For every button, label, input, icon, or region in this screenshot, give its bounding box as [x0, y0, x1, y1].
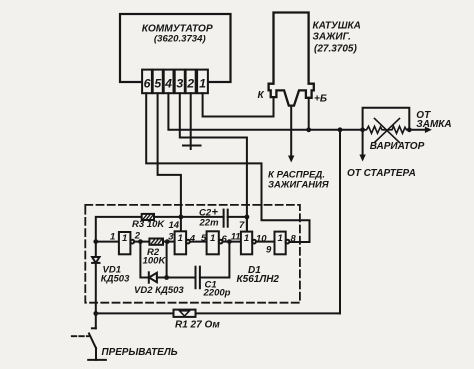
- svg-text:VD2 КД503: VD2 КД503: [134, 285, 184, 296]
- wire starter arrow: [362, 130, 364, 157]
- wire gate2 out to gate3 in: [190, 241, 207, 243]
- connector pin numbers 6 5 4 3 2 1: [144, 77, 207, 91]
- svg-text:7: 7: [239, 220, 245, 231]
- svg-text:КАТУШКА: КАТУШКА: [313, 21, 361, 32]
- arrowhead from starter: [359, 155, 365, 162]
- resistor R2: [149, 239, 163, 245]
- svg-text:(3620.3734): (3620.3734): [154, 33, 206, 44]
- svg-text:22m: 22m: [199, 217, 220, 228]
- capacitor C2 plates: [224, 210, 228, 227]
- svg-text:К: К: [258, 90, 265, 101]
- wire coil HV center to distributor arrow: [290, 106, 292, 158]
- pin label 9: [266, 245, 272, 256]
- arrowhead to lock: [425, 127, 432, 133]
- inverter gate D1.4: [241, 232, 256, 255]
- junction dot breaker node: [93, 311, 98, 316]
- svg-text:1: 1: [277, 233, 282, 244]
- dashed enclosure box: [85, 205, 300, 303]
- svg-text:КД503: КД503: [101, 273, 130, 284]
- svg-text:R1 27 Ом: R1 27 Ом: [175, 319, 220, 330]
- junction dot variator left node: [360, 127, 365, 132]
- label VD1 КД503: [101, 264, 130, 284]
- junction dot VD2/C1 node: [164, 275, 169, 280]
- junction dot node2: [138, 239, 143, 244]
- label R3 10K: [132, 219, 165, 230]
- wire bottom R1 line: [96, 312, 340, 314]
- pin label 14: [169, 220, 180, 231]
- svg-text:К561ЛН2: К561ЛН2: [237, 274, 280, 285]
- pin label 7: [239, 220, 245, 231]
- label C2 + 22m: [199, 206, 220, 228]
- wire pin2 down: [190, 93, 192, 145]
- wire C2 right to pin7 node: [228, 216, 247, 218]
- label К РАСПРЕД ЗАЖИГАНИЯ: [268, 170, 329, 190]
- label D1 К561ЛН2: [237, 265, 280, 285]
- wire pin1 to coil K: [203, 93, 274, 116]
- commutator U (3620.3734) box: [120, 14, 231, 82]
- wire C1 to node11: [200, 242, 230, 278]
- svg-text:2200p: 2200p: [203, 287, 231, 298]
- pin label 4: [189, 233, 196, 244]
- inverter gate D1.3: [207, 231, 223, 254]
- junction dot node1: [93, 239, 98, 244]
- label ОТ СТАРТЕРА: [347, 168, 416, 179]
- label VD2 КД503: [134, 285, 184, 296]
- wire pin6 down: [146, 93, 157, 163]
- inverter gate D1.2: [175, 231, 190, 254]
- svg-text:1: 1: [210, 233, 215, 244]
- svg-text:100K: 100K: [143, 255, 167, 266]
- pin label 1 gate1 input: [110, 231, 115, 242]
- wire gate1 out to node2: [134, 241, 149, 243]
- junction dot pin7 node: [245, 215, 250, 220]
- arrowhead to distributor: [288, 156, 294, 163]
- label R1 27 Ом: [175, 319, 220, 330]
- svg-text:6: 6: [144, 77, 151, 91]
- svg-text:R3 10K: R3 10K: [132, 219, 165, 230]
- svg-text:3: 3: [168, 231, 174, 242]
- wire node3 down to VD2 node: [166, 242, 168, 278]
- wire pin4 to main line: [168, 93, 362, 130]
- coil label КАТУШКА ЗАЖИГ. (27.3705): [313, 21, 361, 55]
- junction dot node11: [227, 239, 232, 244]
- svg-text:1: 1: [199, 77, 206, 91]
- label ВАРИАТОР: [370, 141, 425, 152]
- coil terminal +Б label: [314, 94, 327, 105]
- svg-text:ЗАЖИГАНИЯ: ЗАЖИГАНИЯ: [268, 179, 329, 190]
- commutator label: [142, 24, 213, 45]
- variator RV zigzag with X: [363, 119, 410, 143]
- svg-text:11: 11: [231, 231, 241, 242]
- svg-text:4: 4: [164, 77, 172, 91]
- pin label 11: [231, 231, 241, 242]
- inverter gate D1.1: [119, 232, 134, 254]
- resistor R1: [174, 310, 196, 317]
- junction dot variator right node: [407, 127, 412, 132]
- svg-text:14: 14: [169, 220, 180, 231]
- svg-text:ЗАЖИГ.: ЗАЖИГ.: [313, 32, 351, 43]
- svg-text:+Б: +Б: [314, 94, 327, 105]
- wire net5/6 horizontal to right: [158, 163, 310, 242]
- svg-text:6: 6: [222, 234, 228, 245]
- pin label 10: [256, 233, 267, 244]
- label R2 100K: [143, 247, 167, 266]
- svg-text:5: 5: [154, 77, 161, 91]
- ground chassis symbol: [183, 146, 201, 150]
- label ПРЕРЫВАТЕЛЬ: [102, 347, 178, 358]
- wire C2 net pin14 to pin7: [181, 216, 224, 218]
- capacitor C1 plates: [196, 267, 200, 289]
- svg-text:1: 1: [122, 233, 127, 244]
- wire gate4 out to gate5 in: [256, 241, 275, 243]
- pin label 5: [201, 233, 207, 244]
- junction dot +B node: [306, 127, 311, 132]
- pin label 3: [168, 231, 174, 242]
- connector X1 pin boxes: [142, 70, 208, 94]
- svg-text:10: 10: [256, 233, 267, 244]
- ignition coil T1 body: [269, 13, 314, 106]
- wire gate3 out to node11: [223, 241, 241, 243]
- pin label 6: [222, 234, 228, 245]
- svg-text:8: 8: [291, 233, 297, 244]
- svg-text:2: 2: [186, 77, 194, 91]
- coil terminal K label: [258, 90, 265, 101]
- svg-text:3: 3: [176, 77, 183, 91]
- diode VD2: [149, 272, 167, 282]
- inverter gate D1.5: [275, 232, 290, 255]
- svg-text:ПРЕРЫВАТЕЛЬ: ПРЕРЫВАТЕЛЬ: [102, 347, 178, 358]
- pin label 8: [291, 233, 297, 244]
- svg-text:ЗАМКА: ЗАМКА: [416, 119, 451, 130]
- resistor R3: [142, 214, 154, 220]
- wire R3 net from node1 up and right to pin14 node: [96, 217, 181, 242]
- wire pin3 to IC pin7: [180, 93, 247, 231]
- svg-text:1: 1: [244, 233, 249, 244]
- junction dot pin14 node: [179, 215, 184, 220]
- breaker actuator dashed link: [72, 335, 89, 337]
- label ОТ ЗАМКА: [416, 110, 451, 130]
- variator bypass wire loop: [363, 108, 410, 130]
- wire pin7 down to gate4 top: [246, 217, 248, 232]
- wire VD2 node to C1: [167, 277, 196, 279]
- svg-text:9: 9: [266, 245, 272, 256]
- wire coil +B down to main line: [308, 98, 310, 130]
- breaker switch SW: [88, 313, 106, 360]
- pin label 2: [134, 230, 141, 241]
- junction dot node3: [165, 239, 170, 244]
- diode VD1: [92, 242, 99, 314]
- svg-text:ОТ СТАРТЕРА: ОТ СТАРТЕРА: [347, 168, 416, 179]
- junction dot right branch node: [338, 127, 343, 132]
- svg-text:4: 4: [189, 233, 196, 244]
- wire node1 to gate1 input: [96, 241, 119, 243]
- svg-text:1: 1: [178, 233, 183, 244]
- wire pin5 down with jog to IC pin14: [158, 93, 181, 231]
- label C1 2200p: [203, 279, 231, 298]
- svg-text:(27.3705): (27.3705): [314, 44, 357, 55]
- svg-text:ВАРИАТОР: ВАРИАТОР: [370, 141, 425, 152]
- wire node2 down to VD2: [140, 242, 148, 278]
- wire to lock arrow: [409, 129, 427, 131]
- wire right-side vertical down to R1 line: [339, 130, 341, 314]
- wire R2 to node3: [163, 241, 175, 243]
